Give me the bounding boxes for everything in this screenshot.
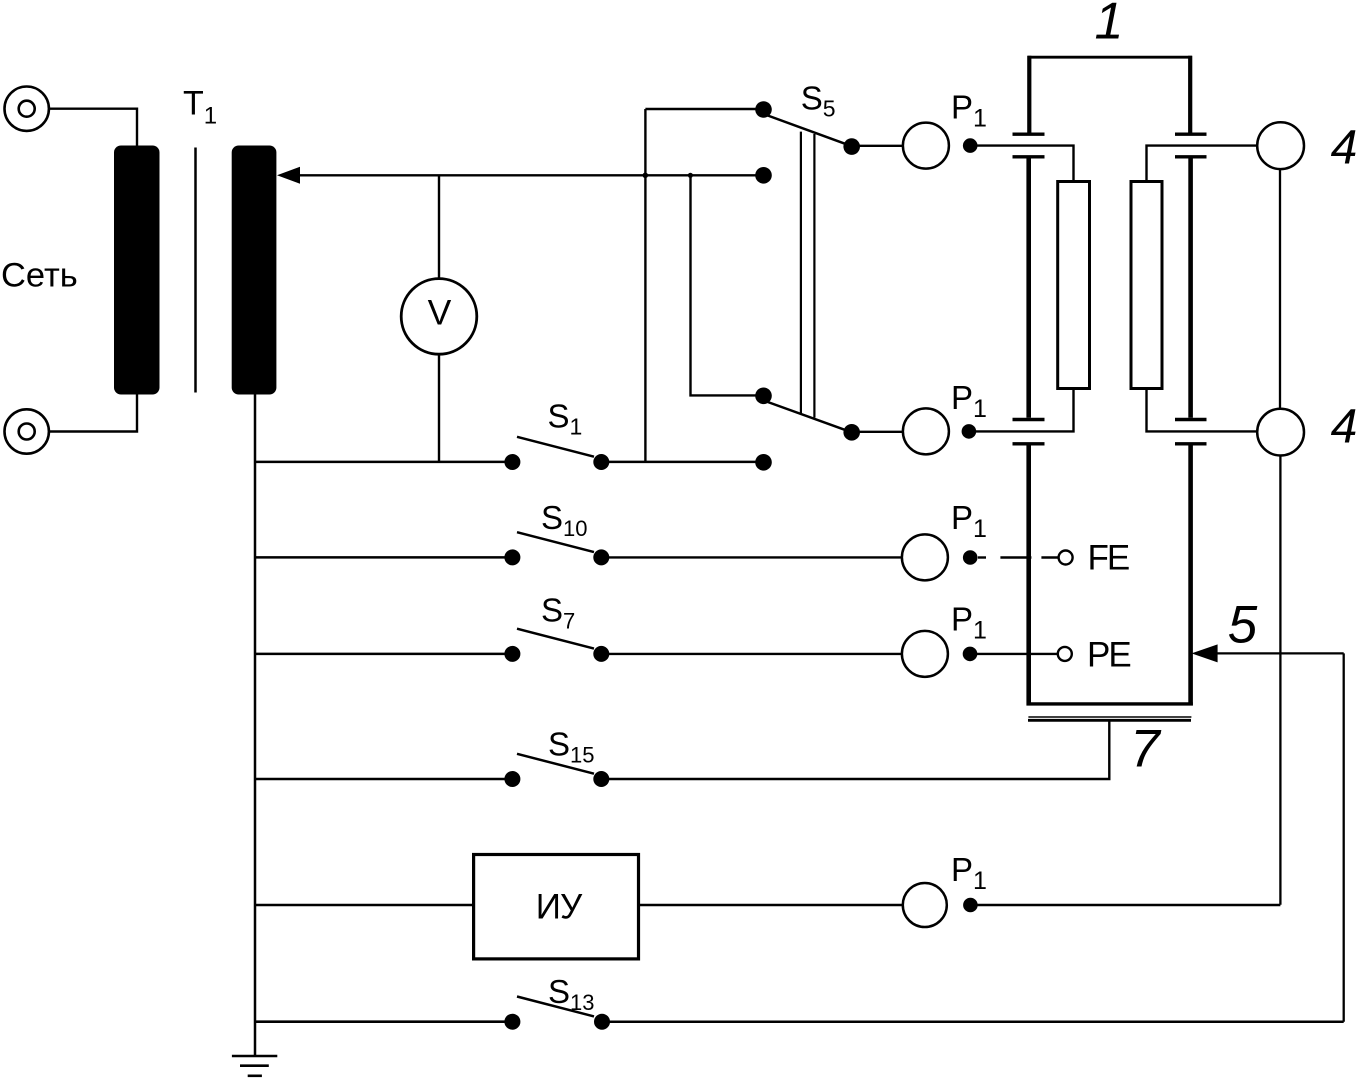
wire: P1 fifth to terminal 4 drop — [975, 904, 1280, 906]
svg-text:S10: S10 — [541, 499, 588, 541]
wire: S1 row bus — [255, 461, 512, 464]
probe P1 third circle — [902, 534, 948, 580]
switch S5 blade 2 — [765, 401, 852, 432]
wire: S13 row bus — [255, 1020, 512, 1023]
wire: S5 pole2 to probe P1 second — [857, 431, 903, 433]
capacitor top-right plates — [1175, 132, 1207, 135]
switch S5 fixed contact 1a — [755, 101, 772, 118]
switch S1 contact right — [593, 454, 609, 470]
svg-text:1: 1 — [1095, 0, 1124, 51]
electrode plate 7 — [1028, 716, 1191, 718]
switch S15 contact left — [504, 771, 520, 787]
svg-text:FE: FE — [1088, 539, 1129, 578]
svg-text:4: 4 — [1331, 121, 1356, 174]
probe P1 fourth circle — [902, 631, 948, 677]
wire: right edge vertical down to S13 — [1343, 653, 1345, 1021]
box IU (test device) — [474, 855, 639, 959]
wire: top terminal to primary winding — [48, 109, 137, 146]
capacitor bottom-left plates — [1013, 418, 1045, 421]
wire: S13 to right edge — [602, 1020, 1344, 1023]
capacitor top-left plates — [1013, 132, 1045, 135]
switch S10 contact right — [593, 549, 609, 565]
svg-text:7: 7 — [1130, 719, 1162, 778]
svg-text:ИУ: ИУ — [536, 888, 583, 927]
switch S5 moving contact 1 — [843, 138, 860, 155]
PE terminal circle — [1058, 647, 1072, 661]
switch S15 contact right — [593, 771, 609, 787]
svg-text:P1: P1 — [951, 851, 987, 895]
wire: S7 row bus — [255, 653, 512, 656]
node P1 third — [963, 550, 978, 565]
mains terminal X1 (top) — [5, 87, 49, 131]
device 1 lower left column — [1026, 446, 1031, 706]
switch S13 contact right — [594, 1014, 610, 1030]
wire: tap line y175 — [299, 174, 764, 176]
wire: P1 fourth to PE — [975, 653, 1059, 655]
wire: S5 pole1 to probe P1 top — [857, 145, 903, 147]
svg-text:S13: S13 — [548, 973, 595, 1015]
switch S5 fixed contact 1b — [755, 167, 772, 184]
wire: IU box to probe P1 fifth — [639, 904, 904, 906]
wire: S1 to S5 lower throw contact — [601, 461, 764, 464]
probe P1 fifth circle — [903, 883, 947, 927]
arrow 5 head — [1192, 644, 1218, 662]
svg-text:P1: P1 — [951, 601, 987, 645]
switch S13 contact left — [504, 1014, 520, 1030]
switch S5 moving contact 2 — [843, 424, 860, 441]
wire: plate 7 stem — [601, 719, 1109, 779]
left bus wire (secondary bottom to ground) — [254, 393, 257, 1056]
probe P1 second circle — [903, 408, 949, 454]
device 1 right column — [1188, 159, 1193, 418]
svg-text:4: 4 — [1331, 401, 1356, 454]
wire: right resistor bottom to terminal 4 bottom — [1147, 388, 1258, 431]
switch S10 blade — [517, 532, 594, 552]
wire: arrow 5 line — [1216, 652, 1344, 654]
wire: terminal 4 top to bottom — [1279, 169, 1281, 409]
wire: bus to IU box — [255, 904, 474, 907]
wire: vertical x645 (S5 top feed) — [644, 109, 646, 462]
svg-text:P1: P1 — [951, 379, 987, 423]
svg-text:S15: S15 — [548, 725, 595, 767]
arrow into secondary winding (tap) — [277, 167, 300, 184]
FE terminal circle — [1059, 551, 1073, 565]
svg-text:S7: S7 — [541, 592, 575, 634]
device 1 top bracket — [1028, 56, 1192, 59]
wire: S10 to probe P1 third — [601, 556, 903, 558]
switch S10 contact left — [504, 549, 520, 565]
voltmeter V — [401, 279, 477, 355]
wire: S15 row bus — [255, 778, 512, 781]
wire: S10 row bus — [255, 556, 512, 559]
node P1 top — [963, 138, 978, 153]
terminal 4 top — [1257, 122, 1304, 169]
svg-text:S1: S1 — [548, 398, 583, 440]
transformer T1 secondary winding — [232, 146, 277, 395]
switch S7 contact right — [593, 646, 609, 662]
resistor left (insulation) — [1058, 182, 1090, 389]
node P1 fourth — [963, 647, 978, 662]
wire: bottom terminal to primary winding — [48, 394, 137, 432]
switch S15 blade — [517, 754, 594, 774]
switch S5 fixed contact 2a — [755, 388, 772, 405]
transformer T1 core — [194, 148, 197, 393]
dashed link to FE — [978, 556, 1059, 558]
wire: P1 top to left resistor top — [975, 146, 1074, 182]
switch S5 blade 1 — [765, 115, 852, 147]
svg-text:PE: PE — [1087, 636, 1130, 675]
voltmeter V stem top — [438, 175, 440, 279]
junction tap line / x645 — [643, 173, 649, 179]
svg-text:S5: S5 — [801, 79, 836, 121]
device 1 left column — [1026, 159, 1031, 418]
svg-text:5: 5 — [1228, 596, 1258, 655]
device 1 lower right column — [1188, 446, 1193, 706]
ground — [232, 1056, 277, 1076]
device 1 bottom wall — [1027, 702, 1193, 705]
wire: left resistor bottom to P1 node — [975, 388, 1074, 431]
svg-text:P1: P1 — [951, 499, 987, 543]
svg-text:Т1: Т1 — [183, 85, 217, 130]
mains terminal X2 (bottom) — [5, 409, 49, 453]
wire: S7 to probe P1 fourth — [601, 653, 903, 655]
svg-text:V: V — [428, 292, 452, 332]
wire: right resistor top to terminal 4 top — [1147, 146, 1258, 182]
switch S7 contact left — [504, 646, 520, 662]
voltmeter V stem bottom — [438, 354, 440, 462]
junction tap line / x690 — [688, 173, 693, 178]
wire: S5 top line y109 — [645, 108, 763, 110]
switch S7 blade — [517, 629, 594, 649]
wire: terminal 4 bottom down to P1/IU line — [1279, 455, 1281, 904]
capacitor bottom-right plates — [1175, 418, 1207, 421]
terminal 4 bottom — [1257, 409, 1304, 456]
wire: vertical x690 to S5 pole2 — [691, 175, 764, 395]
svg-text:Сеть: Сеть — [1, 257, 78, 295]
switch S13 blade — [517, 997, 594, 1017]
switch S5 fixed contact 2b — [755, 454, 772, 471]
resistor right (insulation) — [1131, 182, 1162, 389]
switch S1 contact left — [504, 454, 520, 470]
svg-text:P1: P1 — [951, 89, 987, 133]
node P1 second — [962, 424, 977, 439]
node P1 fifth — [963, 898, 978, 913]
transformer T1 primary winding — [114, 146, 160, 395]
probe P1 top circle — [903, 123, 949, 169]
switch S1 blade — [517, 437, 594, 457]
switch S5 linkage bars — [800, 132, 802, 414]
